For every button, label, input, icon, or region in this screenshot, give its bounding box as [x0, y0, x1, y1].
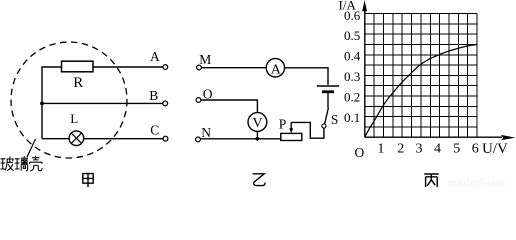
lamp L: [69, 131, 84, 146]
svg-text:O: O: [355, 145, 365, 160]
terminal A circle: [163, 65, 168, 70]
svg-text:0.6: 0.6: [344, 8, 361, 23]
svg-text:manfen5.com: manfen5.com: [448, 178, 505, 187]
ammeter A: [266, 59, 284, 78]
璃: [15, 159, 20, 169]
I-U characteristic curve: [365, 45, 477, 138]
svg-text:4: 4: [434, 142, 441, 157]
wire voltmeter to N wire: [256, 131, 258, 138]
svg-text:0.2: 0.2: [344, 89, 360, 104]
leader line to glass shell label: [27, 139, 36, 157]
svg-text:6: 6: [472, 142, 479, 157]
wire N to rheostat: [200, 138, 280, 140]
label C: [150, 122, 159, 137]
label R: [73, 75, 83, 91]
svg-text:2: 2: [397, 142, 404, 157]
wire ammeter to battery branch: [285, 68, 328, 85]
axis Y (I): [362, 0, 367, 137]
label M: [199, 52, 211, 67]
label B: [149, 88, 158, 103]
svg-text:O: O: [203, 87, 213, 102]
battery positive plate: [317, 85, 339, 87]
caption 丙 (drawn strokes): [424, 174, 438, 187]
label P: [279, 116, 287, 131]
wire switch to rheostat wiper: [291, 122, 324, 138]
axis X (U): [365, 135, 516, 140]
glass shell (dashed circle): [11, 42, 127, 158]
wire battery to switch: [327, 93, 329, 108]
voltmeter V: [248, 113, 267, 132]
switch S pivot: [322, 124, 326, 128]
wire to resistor: [41, 66, 61, 68]
svg-text:R: R: [73, 75, 83, 91]
watermark manfen5.com: [448, 178, 505, 189]
svg-text:0.4: 0.4: [344, 49, 361, 64]
svg-text:5: 5: [453, 142, 460, 157]
caption 甲 (drawn strokes): [83, 174, 93, 187]
rheostat P body: [281, 133, 302, 140]
svg-text:N: N: [201, 125, 211, 140]
axis label I/A: [339, 0, 357, 13]
origin label O: [355, 145, 365, 160]
wire lamp to terminal C: [84, 138, 164, 140]
svg-text:B: B: [149, 88, 158, 103]
terminal M circle: [197, 65, 202, 70]
svg-text:0.5: 0.5: [344, 28, 360, 43]
label N: [201, 125, 211, 140]
wire M to ammeter: [201, 67, 266, 69]
terminal B circle: [163, 101, 168, 106]
svg-text:0.1: 0.1: [344, 110, 360, 125]
junction node on N wire: [256, 137, 260, 141]
svg-text:A: A: [271, 62, 282, 77]
svg-text:3: 3: [416, 142, 423, 157]
label A: [150, 49, 160, 64]
x tick labels: [377, 142, 478, 157]
svg-text:V: V: [253, 116, 263, 131]
label O: [203, 87, 213, 102]
axis label U/V: [482, 141, 508, 157]
label L: [70, 111, 78, 126]
terminal C circle: [163, 136, 168, 141]
玻: [1, 159, 6, 169]
svg-text:S: S: [331, 112, 339, 127]
svg-text:M: M: [199, 52, 211, 67]
svg-text:0.3: 0.3: [344, 69, 360, 84]
svg-text:C: C: [150, 122, 159, 137]
svg-text:P: P: [279, 116, 287, 131]
terminal O circle: [196, 98, 201, 103]
caption 乙 (drawn strokes): [253, 174, 266, 186]
svg-text:A: A: [150, 49, 160, 64]
svg-text:L: L: [70, 111, 78, 126]
wire junction to terminal B: [42, 102, 163, 104]
wire to lamp: [42, 138, 69, 140]
rheostat wiper arrow: [289, 122, 293, 133]
battery negative plate: [322, 90, 334, 93]
left vertical wire: [41, 67, 43, 139]
wire resistor to terminal A: [93, 66, 163, 68]
resistor R: [62, 61, 94, 72]
壳: [30, 156, 43, 171]
svg-text:U/V: U/V: [482, 141, 508, 157]
wire O to voltmeter: [201, 100, 258, 113]
switch S blade: [325, 108, 329, 124]
y tick labels: [344, 8, 361, 125]
junction node (left): [40, 102, 44, 106]
terminal N circle: [196, 137, 201, 142]
svg-text:1: 1: [377, 142, 384, 157]
label S: [331, 112, 339, 127]
graph grid: [365, 14, 477, 138]
label 玻璃壳 (glass shell, drawn strokes): [1, 156, 43, 171]
